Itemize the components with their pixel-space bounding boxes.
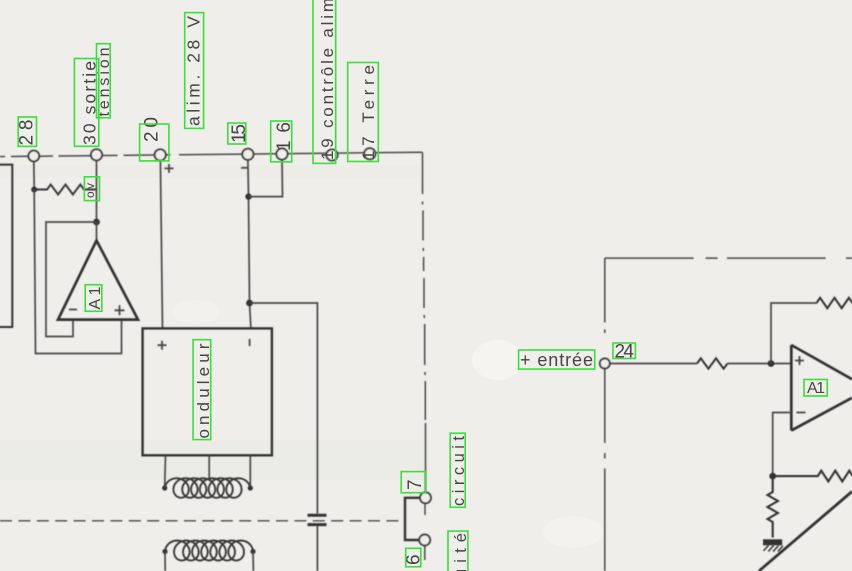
plus label right opamp [795, 356, 804, 365]
module top boundary line with pins [0, 152, 423, 156]
svg-text:alim. 28 V: alim. 28 V [184, 16, 204, 126]
svg-text:15: 15 [229, 124, 250, 143]
pin 24 [600, 359, 610, 369]
capacitor lower lead [316, 526, 318, 571]
junction dot 15/16 [245, 193, 251, 199]
junction dot minus node [769, 473, 776, 480]
left partial box [0, 165, 12, 327]
svg-text:24: 24 [615, 342, 635, 363]
op-amp A1 left triangle [58, 241, 138, 320]
pin 28 [28, 151, 39, 162]
secondary coil [165, 541, 253, 561]
svg-text:7: 7 [405, 479, 426, 490]
wire pin16 down and left [249, 160, 283, 197]
junction dot cap branch [246, 300, 253, 307]
module bottom dashed boundary [0, 520, 402, 522]
box 19 controle alim [313, 0, 336, 163]
resistor input right [697, 358, 727, 368]
box A1 left [85, 285, 102, 312]
pin 16 [276, 148, 287, 159]
wire pin15 down [248, 161, 251, 329]
plus label onduleur [158, 341, 167, 350]
wire pin24 to resistor [610, 363, 697, 365]
feedback loop to minus input [46, 222, 97, 337]
resistor right of minus node [773, 471, 852, 482]
minus label left opamp [69, 309, 77, 311]
pin 30 [91, 149, 102, 160]
onduleur box [143, 328, 272, 455]
svg-text:+ entrée: + entrée [520, 350, 593, 370]
pin 20 [155, 149, 166, 160]
primary coil [165, 478, 251, 498]
minus label onduleur [249, 339, 251, 346]
box circuit [450, 433, 465, 507]
box 24 [613, 343, 635, 359]
plus label left opamp [115, 305, 125, 315]
transformer primary stubs [165, 455, 251, 487]
dash between pin7 and 6 and below pin 6 [424, 504, 426, 560]
box 20 [140, 124, 169, 161]
svg-text:19 contrôle alim: 19 contrôle alim [318, 0, 337, 160]
secondary coil dots [162, 549, 167, 554]
wire pin28 vertical down + to plus input [34, 190, 121, 354]
pin 17 [364, 148, 375, 159]
box 17 Terre [348, 63, 379, 162]
big triangle second stage [759, 492, 852, 571]
junction dot output [93, 219, 100, 226]
boundary corner down, dashed vertical to pin 7 [423, 153, 426, 493]
svg-text:A1: A1 [807, 380, 825, 397]
junction dot pin28 [31, 187, 37, 193]
wire pin30 down to junction [96, 161, 98, 223]
feedback resistor top right [817, 298, 852, 308]
box 16 [271, 121, 292, 162]
pin circles (drawn last, bg filled) [28, 148, 609, 545]
wire pin28 down [33, 161, 35, 190]
box A1 right [804, 380, 827, 397]
primary coil dots [162, 485, 167, 490]
pin 7 [420, 492, 431, 503]
pins 7/6 jumper bracket [405, 498, 420, 540]
wire pin20 down to onduleur + [160, 161, 162, 329]
pin 15 [242, 149, 253, 160]
wire to feedthrough capacitor [250, 303, 318, 514]
box 7 [401, 472, 425, 493]
resistor ov horizontal [37, 185, 97, 195]
box +entree [519, 350, 595, 369]
resistor to ground vertical [768, 476, 778, 537]
minus input wire [773, 413, 792, 477]
box uite [448, 531, 468, 571]
box alim 28 V [185, 13, 204, 129]
wire resistor to junction [728, 363, 792, 365]
box 6 [406, 548, 421, 567]
box 30 sortie [74, 59, 98, 147]
minus label pin15 [241, 167, 248, 169]
box onduleur [193, 340, 211, 440]
plus label pin20 [165, 164, 174, 173]
wire output to apex [96, 222, 98, 241]
op-amp A1 right triangle [791, 345, 852, 431]
box 28 [18, 117, 36, 146]
feedback wire up [771, 303, 817, 364]
box ov [84, 177, 99, 201]
secondary leads down [165, 552, 253, 571]
capacitor plates [308, 514, 327, 517]
right module dash-dot boundary corner [605, 257, 852, 259]
pin 6 [419, 535, 430, 546]
minus label right opamp [797, 412, 806, 414]
junction dot plus input [768, 360, 775, 367]
box 15 [228, 123, 246, 144]
pin 19 [326, 149, 337, 160]
ground symbol [763, 539, 782, 545]
box tension [97, 44, 111, 118]
